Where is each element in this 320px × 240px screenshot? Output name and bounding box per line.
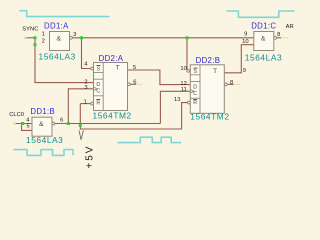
svg-text:3: 3: [84, 85, 87, 91]
svg-text:2: 2: [42, 39, 45, 45]
svg-text:DD2:A: DD2:A: [99, 54, 124, 63]
svg-text:DD1:B: DD1:B: [30, 107, 55, 116]
svg-text:DD1:A: DD1:A: [44, 22, 69, 31]
svg-text:11: 11: [181, 87, 187, 93]
svg-text:T: T: [213, 68, 217, 75]
svg-text:D: D: [96, 82, 100, 88]
svg-text:1564LA3: 1564LA3: [245, 52, 282, 62]
svg-text:5: 5: [133, 65, 136, 71]
svg-text:10: 10: [180, 66, 186, 72]
svg-text:&: &: [261, 35, 266, 42]
svg-text:9: 9: [243, 68, 246, 74]
svg-text:1564LA3: 1564LA3: [26, 135, 63, 145]
svg-text:12: 12: [180, 81, 186, 87]
svg-text:C: C: [193, 91, 197, 97]
svg-text:5: 5: [26, 123, 29, 129]
svg-text:S: S: [194, 69, 198, 75]
svg-text:1564TM2: 1564TM2: [93, 111, 132, 121]
svg-text:R: R: [193, 100, 197, 106]
svg-text:T: T: [116, 65, 120, 72]
svg-text:S: S: [97, 67, 101, 73]
svg-text:3: 3: [73, 32, 76, 38]
svg-text:&: &: [57, 35, 62, 42]
svg-text:13: 13: [174, 97, 180, 103]
svg-text:R: R: [96, 101, 100, 107]
svg-text:10: 10: [242, 39, 248, 45]
svg-text:6: 6: [133, 80, 136, 86]
svg-text:AR: AR: [286, 24, 294, 30]
svg-text:1564LA3: 1564LA3: [39, 52, 76, 62]
svg-text:CLC0: CLC0: [9, 112, 24, 118]
svg-text:DD2:B: DD2:B: [196, 56, 221, 65]
svg-text:SYNC: SYNC: [22, 26, 38, 32]
svg-text:1564TM2: 1564TM2: [190, 112, 229, 122]
svg-text:6: 6: [60, 117, 63, 123]
svg-text:1: 1: [84, 100, 87, 106]
svg-text:1: 1: [42, 32, 45, 38]
svg-text:8: 8: [230, 80, 233, 86]
svg-text:+5V: +5V: [84, 145, 95, 168]
svg-text:D: D: [193, 84, 197, 90]
svg-text:9: 9: [244, 31, 247, 37]
svg-text:DD1:C: DD1:C: [251, 22, 276, 31]
svg-text:8: 8: [277, 32, 280, 38]
svg-text:C: C: [96, 89, 100, 95]
svg-text:&: &: [39, 121, 44, 128]
